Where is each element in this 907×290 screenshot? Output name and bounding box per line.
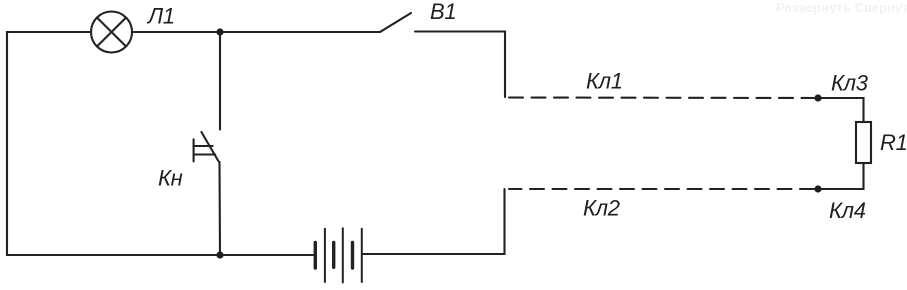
svg-text:Кл3: Кл3 — [831, 71, 869, 96]
svg-text:Кл1: Кл1 — [586, 69, 623, 94]
svg-text:Л1: Л1 — [146, 4, 175, 29]
svg-text:Кл2: Кл2 — [583, 196, 620, 221]
svg-text:Кн: Кн — [158, 166, 183, 191]
svg-text:Развернуть Свернуть: Развернуть Свернуть — [776, 0, 907, 15]
svg-text:В1: В1 — [430, 0, 456, 24]
svg-text:R1: R1 — [880, 130, 907, 155]
svg-text:Кл4: Кл4 — [829, 198, 866, 223]
